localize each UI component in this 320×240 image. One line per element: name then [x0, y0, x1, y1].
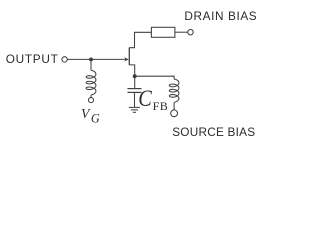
- resistor drain bias: [151, 27, 175, 37]
- svg-text:SOURCE BIAS: SOURCE BIAS: [172, 125, 255, 139]
- node source junction: [133, 74, 137, 78]
- ground bar 1: [129, 106, 140, 108]
- wire junction to capacitor CFB: [134, 76, 136, 88]
- capacitor CFB plate bottom: [128, 91, 142, 93]
- wire source junction to right inductor: [135, 76, 174, 79]
- terminal VG: [88, 98, 93, 103]
- ground bar 2: [131, 109, 138, 111]
- transistor Q1 source lead: [129, 65, 134, 76]
- svg-text:VG: VG: [81, 106, 100, 125]
- inductor right source bias choke: [169, 79, 179, 102]
- wire inductor to VG terminal: [90, 95, 92, 98]
- wire inductor to source terminal: [173, 102, 175, 110]
- wire resistor to drain terminal: [175, 31, 188, 33]
- arrow gate: [124, 57, 129, 61]
- terminal source bias: [171, 110, 178, 117]
- ground bar 3: [133, 111, 136, 113]
- wire capacitor to ground: [134, 92, 136, 107]
- transistor Q1 drain lead: [129, 32, 151, 47]
- inductor left gate bias choke: [86, 70, 96, 95]
- node gate junction: [89, 57, 93, 61]
- wire junction to left inductor: [90, 59, 92, 70]
- svg-text:OUTPUT: OUTPUT: [6, 52, 59, 66]
- terminal output port: [62, 57, 67, 62]
- svg-text:FB: FB: [153, 99, 169, 113]
- svg-text:C: C: [138, 84, 152, 111]
- wire gate from output terminal: [67, 58, 124, 60]
- transistor Q1 gate bar: [128, 48, 130, 65]
- svg-text:DRAIN BIAS: DRAIN BIAS: [184, 9, 257, 23]
- capacitor CFB plate top: [128, 88, 142, 90]
- terminal drain bias: [188, 30, 193, 35]
